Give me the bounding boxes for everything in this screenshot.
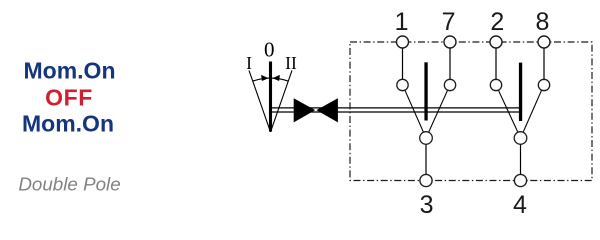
contact point 1 xyxy=(397,79,408,90)
wire common to terminal 3 xyxy=(425,145,427,175)
svg-text:0: 0 xyxy=(264,38,275,62)
terminal 1 xyxy=(397,36,409,48)
svg-text:8: 8 xyxy=(536,8,550,36)
svg-text:OFF: OFF xyxy=(45,85,93,111)
switch body dashed enclosure xyxy=(350,42,592,181)
wire common to terminal 4 xyxy=(520,145,522,175)
travel arc xyxy=(253,78,289,81)
terminal 8 xyxy=(538,36,550,48)
svg-text:Mom.On: Mom.On xyxy=(22,111,114,137)
toggle lever xyxy=(269,62,272,132)
actuator link wire lower xyxy=(270,111,521,113)
arc arrowhead left xyxy=(262,75,268,80)
svg-text:Double Pole: Double Pole xyxy=(18,173,120,194)
common node pole 2 xyxy=(514,132,527,145)
contact point 2 xyxy=(490,79,501,90)
terminal 2 xyxy=(490,36,502,48)
svg-text:7: 7 xyxy=(442,8,456,36)
wire terminal 1 to contact xyxy=(402,48,404,80)
detent bowtie right triangle xyxy=(316,98,338,122)
contact point 8 xyxy=(538,79,549,90)
wire terminal 8 to contact xyxy=(543,48,545,80)
lever throw line right (position II) xyxy=(271,70,293,132)
wire terminal 2 to contact xyxy=(495,48,497,80)
wire contact 2 to common pole 2 xyxy=(498,90,518,132)
terminal 7 xyxy=(444,36,456,48)
svg-text:2: 2 xyxy=(490,8,504,36)
wire contact 8 to common pole 2 xyxy=(523,90,542,132)
contact point 7 xyxy=(444,79,455,90)
contact bridge bar pole 2 xyxy=(519,63,522,121)
lever throw line left (position I) xyxy=(249,70,271,132)
svg-text:Mom.On: Mom.On xyxy=(24,58,116,84)
terminal 4 xyxy=(514,174,526,186)
wire contact 1 to common pole 1 xyxy=(405,90,424,132)
wire terminal 7 to contact xyxy=(449,48,451,80)
contact bridge bar pole 1 xyxy=(424,62,427,120)
common node pole 1 xyxy=(420,132,433,145)
svg-text:3: 3 xyxy=(420,191,434,219)
actuator link wire upper xyxy=(270,107,521,109)
svg-text:I: I xyxy=(246,53,252,73)
svg-text:1: 1 xyxy=(395,8,409,36)
svg-text:II: II xyxy=(285,53,297,73)
terminal 3 xyxy=(420,174,432,186)
svg-text:4: 4 xyxy=(513,191,527,219)
detent bowtie left triangle xyxy=(294,98,316,122)
wire contact 7 to common pole 1 xyxy=(429,90,448,132)
arc arrowhead right xyxy=(273,75,279,80)
